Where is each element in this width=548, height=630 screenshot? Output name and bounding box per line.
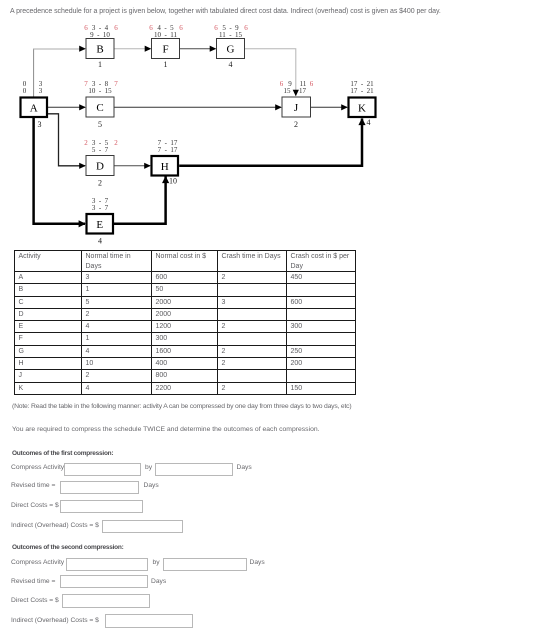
node K [349,98,376,118]
node D [86,156,114,176]
node J [282,97,311,117]
node H times [158,139,178,154]
svg-text:3 - 7: 3 - 7 [92,204,109,212]
node G times [214,24,248,39]
wire G right and down to J [245,49,299,97]
svg-text:17 - 21: 17 - 21 [350,87,374,95]
wire D to H [114,163,151,169]
svg-text:3: 3 [39,87,43,95]
svg-text:J: J [294,102,299,114]
svg-text:6: 6 [149,24,153,32]
svg-text:D: D [96,161,104,173]
svg-text:6: 6 [114,24,118,32]
svg-text:7: 7 [114,80,118,88]
node C [86,97,114,117]
node H [152,156,179,176]
svg-text:7 - 17: 7 - 17 [158,146,178,154]
svg-text:5: 5 [98,120,102,129]
svg-text:2: 2 [84,139,88,147]
wire C to J [114,104,282,110]
node F times [149,24,183,39]
node K times [350,80,374,95]
svg-text:10 - 15: 10 - 15 [88,87,112,95]
node B times [84,24,118,39]
svg-text:6: 6 [84,24,88,32]
svg-text:F: F [162,44,168,56]
svg-text:5 - 7: 5 - 7 [92,146,109,154]
node G [217,39,245,59]
svg-text:4: 4 [367,118,371,127]
node D times [84,139,118,154]
wire H right and up to K (critical) [179,118,365,166]
wire B to F [114,46,151,52]
svg-text:15: 15 [284,87,292,95]
svg-text:10: 10 [169,177,177,186]
svg-text:1: 1 [164,60,168,69]
svg-text:6: 6 [179,24,183,32]
svg-text:2: 2 [114,139,118,147]
svg-text:17: 17 [299,87,307,95]
svg-text:10 - 11: 10 - 11 [154,31,178,39]
svg-text:E: E [96,219,103,231]
wire J to K [311,104,348,110]
svg-text:11 - 15: 11 - 15 [219,31,243,39]
node J times [280,80,314,95]
node A times [23,80,43,95]
node F [152,39,180,59]
svg-text:9 - 10: 9 - 10 [90,31,110,39]
node A [21,98,48,118]
node B [86,39,114,59]
svg-text:2: 2 [294,120,298,129]
wire A down to E (critical) [34,118,86,227]
svg-text:4: 4 [229,60,233,69]
svg-text:B: B [96,44,103,56]
svg-text:0: 0 [23,87,27,95]
svg-text:A: A [30,103,38,115]
svg-text:6: 6 [214,24,218,32]
svg-text:H: H [161,161,169,173]
svg-text:G: G [227,44,235,56]
svg-text:K: K [358,103,366,115]
svg-text:6: 6 [244,24,248,32]
node C times [84,80,118,95]
wire E right and up to H (critical) [114,176,170,224]
svg-text:C: C [96,102,103,114]
wire F to G [180,46,217,52]
node E [87,214,114,234]
svg-text:3: 3 [38,120,42,129]
wire A up to B [33,46,86,97]
wire A to C [48,104,86,110]
svg-text:4: 4 [98,237,102,246]
wire A right and down to D [48,114,86,169]
svg-text:1: 1 [98,60,102,69]
node E times [92,197,109,212]
svg-text:2: 2 [98,179,102,188]
svg-text:6: 6 [310,80,314,88]
